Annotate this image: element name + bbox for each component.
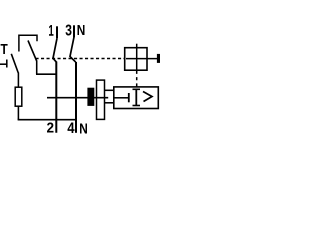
trip relay body (97, 80, 105, 119)
electronics box (114, 87, 159, 109)
mechanism box (125, 48, 147, 70)
mechanism cross horizontal to handle (126, 58, 157, 60)
wire: button branch to pole 1 (36, 73, 56, 75)
wire: button blade down (36, 61, 38, 75)
mechanism cross vertical (136, 44, 138, 70)
wire: pole N top conductor (73, 25, 75, 37)
wire: resistor to bottom rail (17, 106, 19, 120)
wire: relay to electronics upper stub (105, 89, 114, 91)
terminal label N top (77, 25, 84, 35)
mechanical linkage dashed line (36, 58, 125, 60)
terminal label 1 (49, 25, 54, 36)
terminal label 2 (47, 123, 53, 133)
wire: blade to resistor (17, 73, 19, 88)
wire: CT secondary through relay (47, 97, 108, 99)
wire: pole 1 top conductor (56, 26, 58, 38)
wire: pole 1 lower conductor (55, 62, 57, 133)
resistor test resistor (15, 87, 22, 106)
push-button contact blade (28, 41, 37, 62)
mechanical dashed link to electronics (136, 71, 138, 87)
push-button actuator bracket (19, 35, 37, 51)
I-beam bottom cap (133, 105, 141, 107)
capacitor lead inside box (114, 97, 129, 99)
test contact fixed bar (6, 60, 8, 68)
switch contact pole N blade (70, 38, 76, 63)
capacitor plate 2 I-beam stem (135, 89, 137, 105)
threshold symbol &gt; (143, 92, 152, 102)
wire: test circuit bottom rail to pole N (18, 119, 76, 120)
terminal label N bottom (80, 124, 87, 134)
terminal label 3 (66, 24, 72, 35)
label T (test button) (1, 44, 8, 54)
test contact blade (11, 54, 18, 73)
switch contact pole 1 blade (53, 38, 57, 62)
wire: relay to electronics lower stub (105, 102, 114, 104)
I-beam top cap (133, 88, 141, 90)
current transformer core (black) (87, 88, 94, 106)
capacitor plate 1 (128, 93, 130, 102)
wire: test contact fixed lead at left edge (0, 63, 7, 65)
handle bar (157, 54, 160, 63)
terminal label 4 (67, 123, 74, 133)
wire: pole N lower conductor (75, 62, 77, 133)
